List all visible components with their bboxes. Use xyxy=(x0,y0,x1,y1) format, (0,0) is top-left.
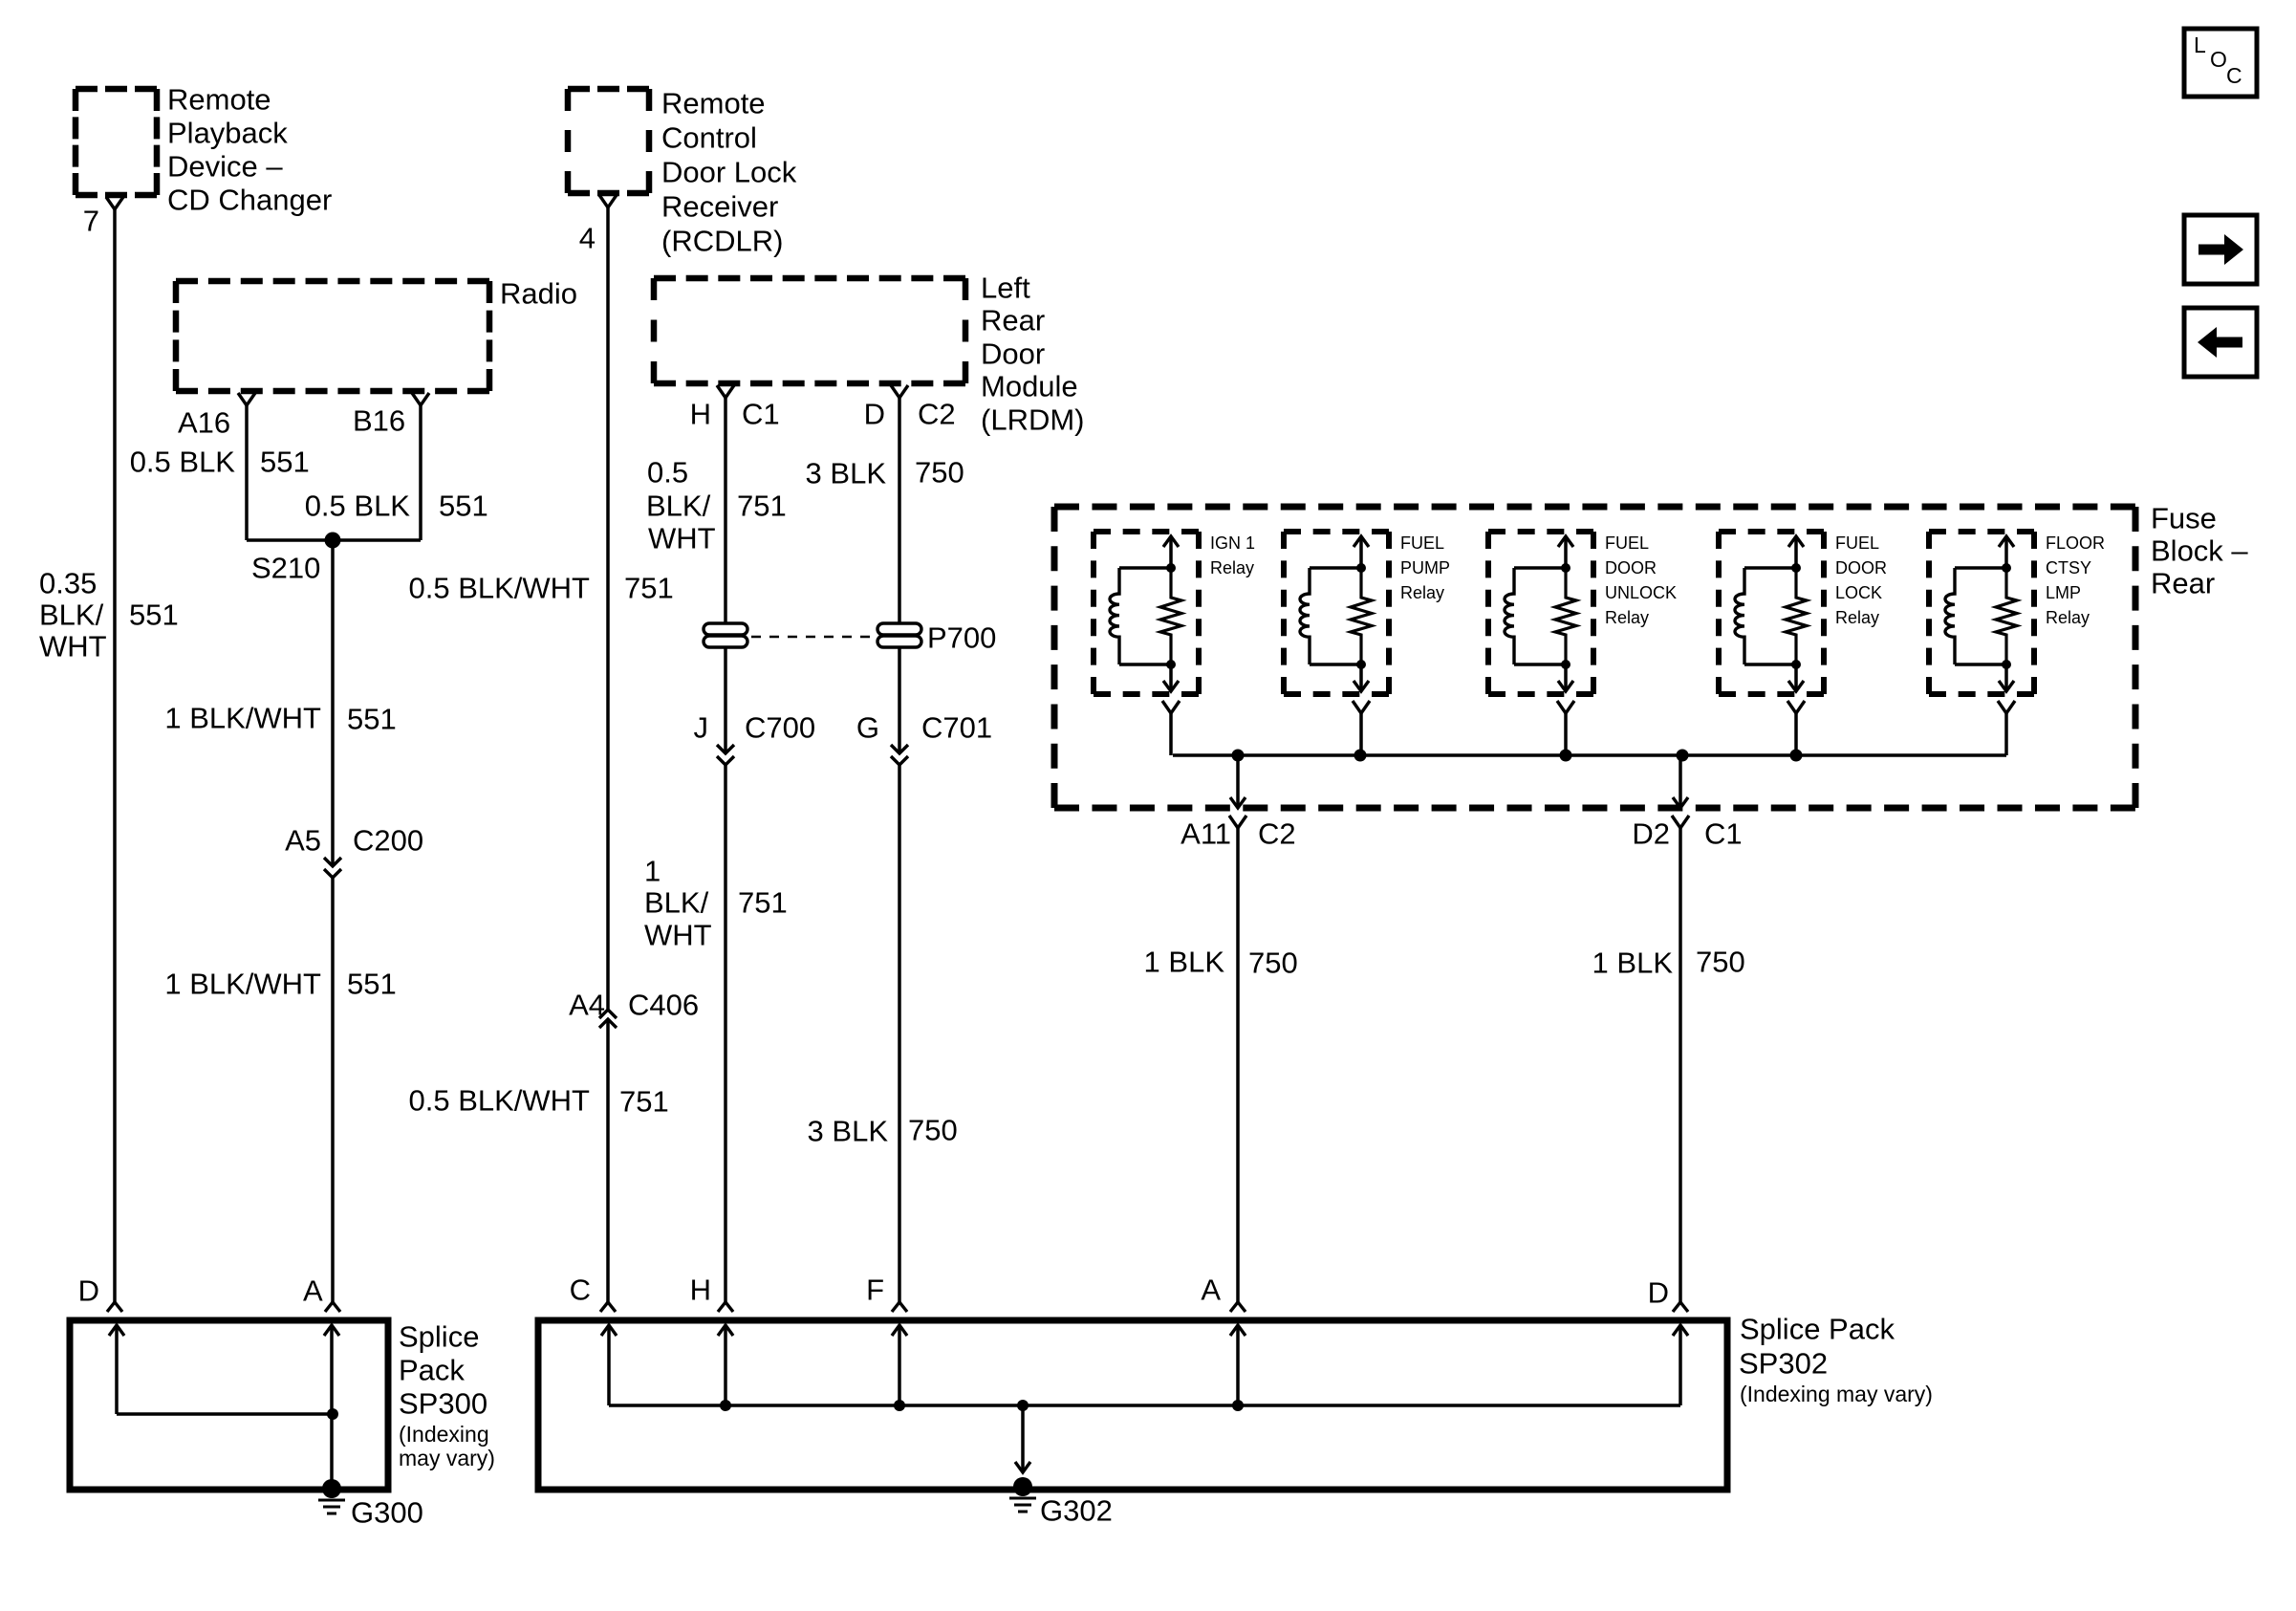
relay FUEL DOOR UNLOCK label xyxy=(1605,533,1677,627)
svg-text:FUEL: FUEL xyxy=(1605,533,1649,553)
label G302 xyxy=(1040,1494,1113,1528)
svg-text:750: 750 xyxy=(1696,946,1745,979)
svg-text:SP300: SP300 xyxy=(399,1387,487,1421)
label Remote Control Door Lock Receiver (RCDLR) xyxy=(661,87,797,258)
svg-text:Remote: Remote xyxy=(167,83,271,117)
svg-text:LOCK: LOCK xyxy=(1835,583,1882,602)
wire label 1 BLK/WHT 751 (C700 lower) xyxy=(644,855,788,952)
relay FUEL DOOR LOCK top junction dot xyxy=(1791,563,1801,573)
svg-text:C701: C701 xyxy=(921,711,992,745)
svg-text:Left: Left xyxy=(981,272,1030,305)
svg-text:751: 751 xyxy=(738,886,788,920)
pin 4 connector of RCDLR xyxy=(599,195,617,207)
svg-text:PUMP: PUMP xyxy=(1400,558,1450,577)
ground G300 symbol xyxy=(318,1500,345,1513)
label J C700 xyxy=(694,711,816,745)
wire label 0.35 BLK/WHT 551 (left wire) xyxy=(39,567,179,664)
splice pack SP300 box xyxy=(70,1320,388,1490)
svg-text:CD Changer: CD Changer xyxy=(167,184,332,217)
svg-text:0.5 BLK/WHT: 0.5 BLK/WHT xyxy=(409,1084,591,1118)
svg-text:FLOOR: FLOOR xyxy=(2046,533,2105,553)
svg-text:C200: C200 xyxy=(353,824,423,858)
pin label D2 C1 xyxy=(1632,817,1742,851)
svg-text:UNLOCK: UNLOCK xyxy=(1605,583,1677,602)
svg-text:Splice Pack: Splice Pack xyxy=(1740,1313,1895,1346)
svg-text:C2: C2 xyxy=(1258,817,1296,851)
svg-text:(Indexing: (Indexing xyxy=(399,1422,489,1447)
relay FUEL DOOR LOCK label xyxy=(1835,533,1887,627)
svg-text:D: D xyxy=(1648,1276,1669,1310)
relay FUEL DOOR UNLOCK resistor xyxy=(1555,568,1576,664)
svg-text:750: 750 xyxy=(908,1114,958,1147)
relay FUEL PUMP bottom wire from coil xyxy=(1310,663,1361,666)
connector G C701 (inline, pointing down) xyxy=(891,745,908,765)
SP302 internal A branch arrow xyxy=(1230,1325,1245,1405)
relay FUEL DOOR UNLOCK bottom wire from coil xyxy=(1514,663,1566,666)
wire label 1 BLK/WHT 551 (lower) xyxy=(164,968,396,1001)
svg-text:1: 1 xyxy=(644,855,661,888)
label Fuse Block - Rear xyxy=(2151,502,2248,600)
pin label B16 xyxy=(353,404,405,438)
relay IGN 1 top terminal arrow (up) xyxy=(1163,536,1179,568)
wire label 3 BLK 750 (D C2 upper) xyxy=(806,456,964,490)
relay FUEL PUMP stem to ground bus xyxy=(1359,713,1363,755)
relay box FLOOR CTSY LMP Relay (dashed) xyxy=(1929,532,2034,694)
svg-text:C: C xyxy=(570,1274,591,1307)
pin label C (SP302) xyxy=(570,1274,591,1307)
svg-text:0.35: 0.35 xyxy=(39,567,97,600)
relay box FUEL DOOR LOCK Relay (dashed) xyxy=(1719,532,1824,694)
relay FUEL PUMP top junction dot xyxy=(1356,563,1366,573)
svg-text:F: F xyxy=(866,1274,884,1307)
pin label A16 xyxy=(178,406,230,440)
svg-text:Device –: Device – xyxy=(167,150,283,184)
wire 551 from C200 down to SP300 A xyxy=(331,878,335,1302)
relay FUEL DOOR LOCK bottom junction dot xyxy=(1791,660,1801,669)
svg-text:CTSY: CTSY xyxy=(2046,558,2091,577)
label G C701 xyxy=(856,711,992,745)
relay FLOOR CTSY LMP resistor xyxy=(1996,568,2017,664)
svg-text:Door: Door xyxy=(981,337,1045,371)
svg-text:WHT: WHT xyxy=(648,522,716,555)
pin 7 connector of CD Changer xyxy=(106,197,123,209)
wire label 0.5 BLK 551 (B16) xyxy=(305,490,488,523)
svg-text:BLK/: BLK/ xyxy=(646,490,711,523)
pin D C2 connector of LRDM xyxy=(891,385,908,398)
wire Radio A16 down xyxy=(245,405,249,540)
icon forward arrow box xyxy=(2184,215,2257,284)
fork at SP302 F wire end xyxy=(892,1302,907,1312)
svg-text:may vary): may vary) xyxy=(399,1446,495,1470)
SP302 internal H branch arrow xyxy=(718,1325,733,1405)
SP302 internal bus xyxy=(609,1404,1680,1407)
wire from LRDM D C2 down to grommet xyxy=(898,398,901,623)
SP302 internal H junction dot xyxy=(720,1400,731,1411)
ground bus junction dot x=1879 xyxy=(1790,750,1803,762)
relay IGN 1 bottom junction dot xyxy=(1166,660,1176,669)
relay IGN 1 top wire to coil xyxy=(1119,566,1171,570)
SP302 internal D branch arrow xyxy=(1673,1325,1688,1405)
pin label 4 xyxy=(579,222,596,255)
fork at SP302 D wire end xyxy=(1673,1302,1688,1312)
relay IGN 1 bottom terminal arrow (down) xyxy=(1163,664,1179,691)
pin B16 connector of Radio xyxy=(412,393,429,405)
svg-text:Relay: Relay xyxy=(2046,608,2090,627)
ground bus junction dot x=1638 xyxy=(1560,750,1572,762)
svg-text:IGN 1: IGN 1 xyxy=(1210,533,1255,553)
wire Radio B16 down xyxy=(419,405,422,540)
dashed link between P700 grommets xyxy=(751,636,874,638)
relay FUEL PUMP top wire to coil xyxy=(1310,566,1361,570)
svg-text:S210: S210 xyxy=(251,552,320,585)
svg-text:BLK/: BLK/ xyxy=(39,599,104,632)
svg-text:C: C xyxy=(2226,63,2242,88)
relay FLOOR CTSY LMP bottom terminal arrow (down) xyxy=(1999,664,2014,691)
relay FUEL DOOR UNLOCK top wire to coil xyxy=(1514,566,1566,570)
fork at SP302 A wire end xyxy=(1230,1302,1245,1312)
relay FUEL DOOR UNLOCK bottom terminal arrow (down) xyxy=(1558,664,1573,691)
relay FUEL DOOR LOCK top wire to coil xyxy=(1744,566,1796,570)
wire S210 horizontal xyxy=(247,538,421,542)
svg-text:A4: A4 xyxy=(569,989,605,1022)
relay box IGN 1 Relay (dashed) xyxy=(1094,532,1199,694)
relay FUEL PUMP bottom junction dot xyxy=(1356,660,1366,669)
svg-text:0.5 BLK: 0.5 BLK xyxy=(305,490,411,523)
svg-text:551: 551 xyxy=(347,968,397,1001)
pin label D (SP300) xyxy=(78,1274,99,1308)
fork at SP300 D wire end xyxy=(107,1302,122,1312)
relay FUEL DOOR LOCK bottom wire from coil xyxy=(1744,663,1796,666)
pin label D C2 xyxy=(864,398,956,431)
svg-text:H: H xyxy=(690,1274,711,1307)
wire from bus down to A11 exit xyxy=(1230,755,1245,808)
svg-text:4: 4 xyxy=(579,222,596,255)
label A5 C200 xyxy=(285,824,423,858)
svg-text:DOOR: DOOR xyxy=(1835,558,1887,577)
SP302 ground junction dot xyxy=(1017,1400,1029,1411)
relay IGN 1 label xyxy=(1210,533,1255,577)
relay FUEL DOOR UNLOCK bottom junction dot xyxy=(1561,660,1570,669)
svg-text:Radio: Radio xyxy=(500,277,577,311)
relay FLOOR CTSY LMP bottom wire from coil xyxy=(1955,663,2006,666)
icon back arrow box xyxy=(2184,308,2257,377)
relay FLOOR CTSY LMP top junction dot xyxy=(2002,563,2011,573)
svg-text:(Indexing may vary): (Indexing may vary) xyxy=(1740,1382,1933,1406)
svg-text:1 BLK/WHT: 1 BLK/WHT xyxy=(164,968,321,1001)
svg-text:751: 751 xyxy=(737,490,787,523)
svg-text:LMP: LMP xyxy=(2046,583,2081,602)
SP302 ground stem xyxy=(1015,1405,1030,1472)
component box Fuse Block - Rear (dashed) xyxy=(1054,507,2135,808)
splice S210 junction dot xyxy=(325,533,341,549)
fuse block pin D2 C1 fork xyxy=(1672,816,1689,828)
svg-text:WHT: WHT xyxy=(644,919,712,952)
svg-text:750: 750 xyxy=(1248,947,1298,980)
relay IGN 1 coil xyxy=(1110,568,1119,664)
relay FUEL PUMP label xyxy=(1400,533,1450,602)
svg-text:751: 751 xyxy=(624,572,674,605)
svg-text:P700: P700 xyxy=(927,621,996,655)
wire 750 from D2 C1 down to SP302 D xyxy=(1679,828,1682,1302)
svg-text:7: 7 xyxy=(83,205,99,238)
component box Radio (dashed) xyxy=(176,281,489,391)
pin label A (SP302) xyxy=(1201,1274,1221,1307)
wire from bus down to D2 exit xyxy=(1673,755,1688,808)
pin label A (SP300) xyxy=(303,1274,323,1308)
svg-text:Door Lock: Door Lock xyxy=(661,156,797,189)
connector J C700 (inline, pointing down) xyxy=(717,745,734,765)
svg-text:1 BLK/WHT: 1 BLK/WHT xyxy=(164,702,321,735)
svg-text:G: G xyxy=(856,711,879,745)
ground bus junction dot x=1295 xyxy=(1232,750,1245,762)
svg-text:A: A xyxy=(1201,1274,1221,1307)
svg-text:Rear: Rear xyxy=(981,304,1045,337)
svg-text:Remote: Remote xyxy=(661,87,766,120)
relay FUEL PUMP pin fork below box xyxy=(1353,701,1370,713)
svg-text:0.5 BLK/WHT: 0.5 BLK/WHT xyxy=(409,572,591,605)
SP302 internal C branch arrow xyxy=(601,1325,617,1405)
svg-text:C406: C406 xyxy=(628,989,699,1022)
relay FLOOR CTSY LMP coil xyxy=(1945,568,1955,664)
svg-text:D: D xyxy=(864,398,885,431)
relay FLOOR CTSY LMP top wire to coil xyxy=(1955,566,2006,570)
svg-text:Playback: Playback xyxy=(167,117,288,150)
relay IGN 1 stem to ground bus xyxy=(1169,713,1173,755)
svg-text:Relay: Relay xyxy=(1605,608,1649,627)
svg-text:551: 551 xyxy=(129,599,179,632)
wire 750 from A11 C2 down to SP302 A xyxy=(1236,828,1240,1302)
svg-text:G302: G302 xyxy=(1040,1494,1113,1528)
relay FUEL DOOR LOCK bottom terminal arrow (down) xyxy=(1788,664,1804,691)
relay FUEL PUMP resistor xyxy=(1351,568,1372,664)
wire from C701 down to SP302 F xyxy=(898,765,901,1302)
wire label 3 BLK 750 (D C2 lower) xyxy=(808,1114,958,1148)
relay FUEL DOOR UNLOCK coil xyxy=(1505,568,1514,664)
relay FLOOR CTSY LMP top terminal arrow (up) xyxy=(1999,536,2014,568)
svg-text:750: 750 xyxy=(915,456,964,490)
relay box FUEL PUMP Relay (dashed) xyxy=(1284,532,1389,694)
pin label A11 C2 xyxy=(1180,817,1296,851)
grommet P700 on H C1 wire xyxy=(704,623,747,647)
svg-text:G300: G300 xyxy=(351,1496,423,1530)
svg-text:FUEL: FUEL xyxy=(1400,533,1444,553)
label Remote Playback Device - CD Changer xyxy=(167,83,332,217)
component box Remote Playback Device - CD Changer (dashed) xyxy=(76,89,157,195)
SP302 internal A junction dot xyxy=(1232,1400,1244,1411)
wire from LRDM H C1 down to grommet xyxy=(724,398,727,623)
pin label D (SP302) xyxy=(1648,1276,1669,1310)
wire label 1 BLK/WHT 551 (upper) xyxy=(164,702,396,736)
SP302 internal F branch arrow xyxy=(892,1325,907,1405)
svg-text:C1: C1 xyxy=(742,398,780,431)
wire 751 from RCDLR pin 4 down to C406 xyxy=(606,207,610,1010)
relay FUEL DOOR LOCK pin fork below box xyxy=(1787,701,1805,713)
connector A5 C200 (inline, pointing down) xyxy=(324,858,341,878)
svg-text:A16: A16 xyxy=(178,406,230,440)
label P700 xyxy=(927,621,996,655)
wire 551 from CD Changer pin 7 down to SP300 D xyxy=(113,209,117,1302)
svg-text:C1: C1 xyxy=(1704,817,1743,851)
relay IGN 1 top junction dot xyxy=(1166,563,1176,573)
relay FLOOR CTSY LMP bottom junction dot xyxy=(2002,660,2011,669)
pin label F (SP302) xyxy=(866,1274,884,1307)
pin H C1 connector of LRDM xyxy=(717,385,734,398)
label Left Rear Door Module (LRDM) xyxy=(981,272,1085,437)
ground G300 dot xyxy=(322,1479,341,1498)
SP302 internal F junction dot xyxy=(894,1400,905,1411)
SP300 internal A branch arrow xyxy=(324,1325,339,1485)
splice pack SP302 box xyxy=(538,1320,1727,1490)
svg-text:1 BLK: 1 BLK xyxy=(1592,947,1674,980)
relay IGN 1 resistor xyxy=(1160,568,1181,664)
label Splice Pack SP302 xyxy=(1739,1313,1933,1406)
label Radio xyxy=(500,277,577,311)
svg-text:Relay: Relay xyxy=(1835,608,1879,627)
svg-text:WHT: WHT xyxy=(39,630,107,664)
relay FLOOR CTSY LMP label xyxy=(2046,533,2105,627)
fork at SP302 H wire end xyxy=(718,1302,733,1312)
relay FUEL PUMP top terminal arrow (up) xyxy=(1354,536,1369,568)
wire label 0.5 BLK/WHT 751 (H C1) xyxy=(646,456,787,555)
svg-text:Module: Module xyxy=(981,370,1078,403)
svg-text:Receiver: Receiver xyxy=(661,190,778,224)
label S210 xyxy=(251,552,320,585)
relay IGN 1 pin fork below box xyxy=(1162,701,1180,713)
svg-text:J: J xyxy=(694,711,709,745)
relay FUEL PUMP bottom terminal arrow (down) xyxy=(1354,664,1369,691)
relay FUEL DOOR UNLOCK pin fork below box xyxy=(1557,701,1574,713)
fork at SP300 A wire end xyxy=(325,1302,340,1312)
pin label H C1 xyxy=(690,398,780,431)
icon LOC box xyxy=(2184,29,2257,97)
relay FLOOR CTSY LMP pin fork below box xyxy=(1998,701,2015,713)
wire 751 from C406 down to SP302 C xyxy=(606,1019,610,1302)
svg-text:751: 751 xyxy=(619,1085,669,1119)
pin label 7 xyxy=(83,205,99,238)
SP300 internal D-to-A jumper xyxy=(117,1412,333,1416)
svg-text:0.5 BLK: 0.5 BLK xyxy=(130,446,236,479)
svg-text:3 BLK: 3 BLK xyxy=(808,1115,889,1148)
relay box FUEL DOOR UNLOCK Relay (dashed) xyxy=(1488,532,1593,694)
svg-text:Rear: Rear xyxy=(2151,567,2215,600)
wire label 1 BLK 750 (A11 wire) xyxy=(1144,946,1298,980)
fuse block ground bus xyxy=(1173,753,2006,757)
connector A4 C406 (inline, pointing up) xyxy=(599,1010,617,1028)
svg-text:0.5: 0.5 xyxy=(647,456,688,490)
relay FUEL DOOR LOCK coil xyxy=(1735,568,1744,664)
wire from grommet down to C701 xyxy=(898,647,901,753)
svg-text:Relay: Relay xyxy=(1400,583,1444,602)
relay FUEL DOOR LOCK top terminal arrow (up) xyxy=(1788,536,1804,568)
relay FUEL PUMP coil xyxy=(1300,568,1310,664)
ground bus junction dot x=1760 xyxy=(1677,750,1689,762)
label G300 xyxy=(351,1496,423,1530)
grommet P700 on D C2 wire xyxy=(877,623,921,647)
fuse block pin A11 C2 fork xyxy=(1229,816,1246,828)
relay FUEL DOOR UNLOCK top junction dot xyxy=(1561,563,1570,573)
ground G302 symbol xyxy=(1009,1498,1036,1512)
wire from C700 down to SP302 H xyxy=(724,765,727,1302)
svg-text:(RCDLR): (RCDLR) xyxy=(661,225,783,258)
svg-text:L: L xyxy=(2194,33,2206,57)
relay FLOOR CTSY LMP stem to ground bus xyxy=(2004,713,2008,755)
svg-text:551: 551 xyxy=(347,703,397,736)
svg-text:D2: D2 xyxy=(1632,817,1670,851)
svg-text:A: A xyxy=(303,1274,323,1308)
component box Left Rear Door Module (dashed) xyxy=(654,278,965,383)
svg-text:A5: A5 xyxy=(285,824,321,858)
svg-text:3 BLK: 3 BLK xyxy=(806,457,887,490)
svg-text:C2: C2 xyxy=(918,398,956,431)
ground bus junction dot x=1423 xyxy=(1354,750,1367,762)
svg-text:BLK/: BLK/ xyxy=(644,886,709,920)
relay FUEL DOOR LOCK stem to ground bus xyxy=(1794,713,1798,755)
label A4 C406 xyxy=(569,989,699,1022)
svg-text:DOOR: DOOR xyxy=(1605,558,1657,577)
svg-text:1 BLK: 1 BLK xyxy=(1144,946,1225,979)
SP300 internal D branch arrow xyxy=(109,1325,124,1414)
relay IGN 1 bottom wire from coil xyxy=(1119,663,1171,666)
svg-text:Block –: Block – xyxy=(2151,534,2248,568)
svg-text:SP302: SP302 xyxy=(1739,1347,1828,1381)
svg-text:FUEL: FUEL xyxy=(1835,533,1879,553)
svg-text:Fuse: Fuse xyxy=(2151,502,2217,535)
svg-text:Control: Control xyxy=(661,121,757,155)
wire 551 from S210 down to C200 xyxy=(331,540,335,866)
svg-text:Pack: Pack xyxy=(399,1354,465,1387)
component box Remote Control Door Lock Receiver (dashed) xyxy=(568,89,649,193)
svg-text:Splice: Splice xyxy=(399,1320,479,1354)
svg-text:551: 551 xyxy=(260,446,310,479)
wire label 0.5 BLK 551 (A16) xyxy=(130,446,310,479)
svg-text:551: 551 xyxy=(439,490,488,523)
pin label H (SP302) xyxy=(690,1274,711,1307)
ground G302 dot xyxy=(1013,1477,1032,1496)
svg-text:Relay: Relay xyxy=(1210,558,1254,577)
relay FUEL DOOR LOCK resistor xyxy=(1786,568,1807,664)
wire label 0.5 BLK/WHT 751 (RCDLR upper) xyxy=(409,572,674,605)
wire from grommet down to C700 xyxy=(724,647,727,753)
svg-text:H: H xyxy=(690,398,711,431)
svg-text:(LRDM): (LRDM) xyxy=(981,403,1085,437)
relay FUEL DOOR UNLOCK top terminal arrow (up) xyxy=(1558,536,1573,568)
svg-text:C700: C700 xyxy=(745,711,815,745)
svg-text:B16: B16 xyxy=(353,404,405,438)
SP300 internal junction dot xyxy=(327,1408,338,1420)
pin A16 connector of Radio xyxy=(238,393,255,405)
relay FUEL DOOR UNLOCK stem to ground bus xyxy=(1564,713,1568,755)
label Splice Pack SP300 xyxy=(399,1320,495,1470)
wire label 1 BLK 750 (D2 wire) xyxy=(1592,946,1745,980)
fork at SP302 C wire end xyxy=(600,1302,616,1312)
svg-text:D: D xyxy=(78,1274,99,1308)
svg-text:O: O xyxy=(2210,47,2227,72)
wire label 0.5 BLK/WHT 751 (lower) xyxy=(409,1084,669,1119)
svg-text:A11: A11 xyxy=(1180,817,1231,851)
